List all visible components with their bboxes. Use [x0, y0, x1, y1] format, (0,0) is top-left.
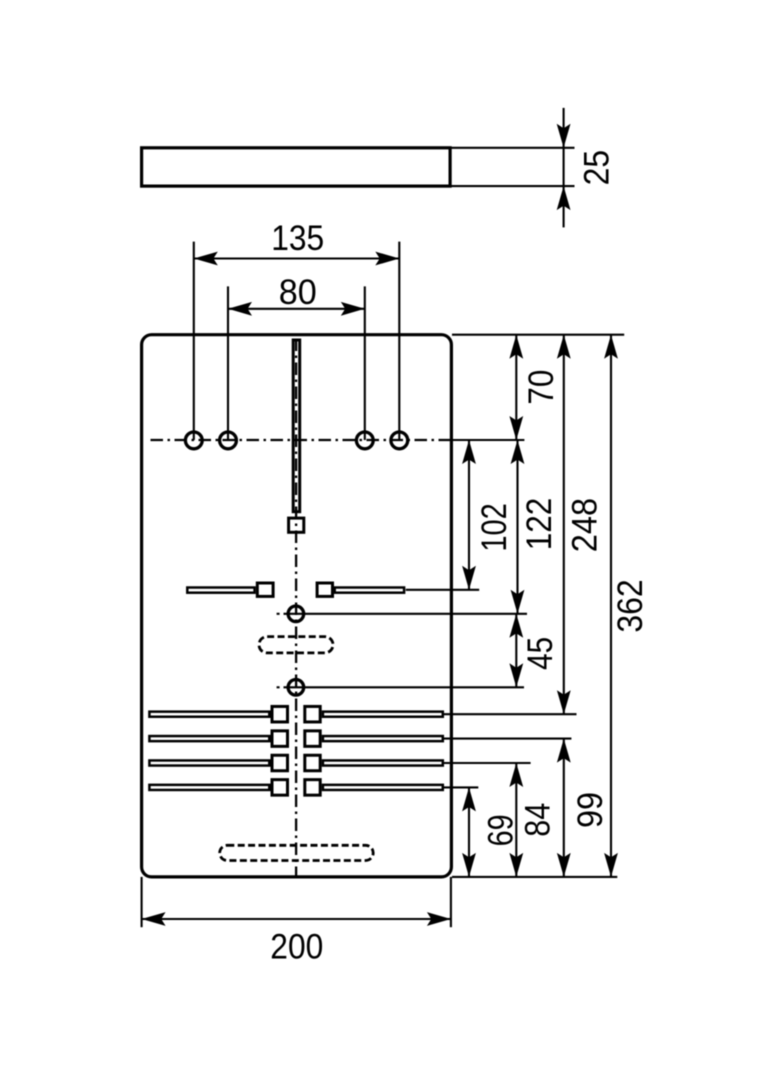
dim 25 line lower	[563, 186, 565, 227]
terminal row: right bar	[335, 588, 404, 593]
bar row 1 right square	[305, 706, 320, 722]
dim 80 ext line right	[364, 286, 366, 440]
hole 4	[391, 432, 408, 449]
bar row 2 left bar	[149, 736, 269, 741]
terminal row: left bar	[187, 588, 254, 593]
dim 248 arrow top	[557, 335, 571, 359]
svg-text:70: 70	[522, 370, 561, 405]
dim 135 line	[194, 257, 399, 259]
dim 84 arrow bottom	[509, 853, 523, 877]
dim 84 arrow top	[509, 763, 523, 787]
bar row 4 right square	[305, 780, 320, 796]
dim 69 line	[468, 787, 470, 877]
circle 1 left centerline dot	[277, 613, 280, 615]
svg-text:248: 248	[566, 498, 605, 552]
dim 248 arrow bottom	[557, 690, 571, 714]
bar row 2 right bar	[323, 736, 443, 741]
circle knockout 1	[288, 606, 304, 622]
terminal row: right square	[317, 583, 332, 596]
dim 80 arrow left	[228, 302, 252, 316]
hole 1	[185, 432, 202, 449]
dim 362 arrow top	[604, 335, 618, 359]
dim 248 line	[563, 335, 565, 715]
bar row 3 right square	[305, 755, 320, 771]
bar row 2 right square	[305, 731, 320, 747]
side view plate	[142, 148, 451, 186]
bar row 2 left square	[272, 731, 288, 747]
dim 80 arrow right	[341, 302, 365, 316]
dim 25 arrow top	[557, 124, 571, 148]
dim 80 line	[228, 308, 365, 310]
dim 200 arrow right	[427, 912, 451, 926]
svg-text:69: 69	[482, 814, 521, 846]
dim 122 arrow top	[511, 440, 525, 464]
dim 102 line	[468, 440, 470, 590]
dim 70 arrow bottom	[509, 416, 523, 440]
holes centerline extension	[451, 439, 524, 441]
dim 99 arrow bottom	[557, 853, 571, 877]
dim 135 ext line left	[193, 242, 195, 440]
bar row 3 right bar	[323, 760, 443, 765]
bar row 3 left square	[272, 755, 288, 771]
dim 45 arrow top	[509, 614, 523, 638]
dim 102 arrow top	[462, 440, 476, 464]
bar row 4 left square	[272, 780, 288, 796]
terminal row: left square	[257, 583, 273, 596]
side view top edge extension	[450, 147, 574, 149]
dim 25 line upper	[563, 108, 565, 148]
dim 69 arrow bottom	[462, 853, 476, 877]
svg-text:25: 25	[578, 150, 617, 186]
circle 2 left centerline dot	[277, 686, 280, 688]
circle 2 extension line	[284, 686, 525, 688]
svg-text:102: 102	[475, 503, 514, 552]
slot end square	[289, 518, 304, 532]
bar row 3 left bar	[149, 760, 269, 765]
hole 2	[220, 432, 237, 449]
bar row 4 left bar	[149, 785, 269, 790]
dashed obround 1	[259, 637, 333, 653]
bar row 1 left bar	[149, 712, 269, 717]
dim 362 line	[610, 335, 612, 877]
bar row 1 extension line	[444, 713, 577, 715]
dim 102 arrow bottom	[462, 566, 476, 590]
dim 25 arrow bottom	[557, 186, 571, 210]
svg-text:135: 135	[271, 219, 324, 258]
dim 200 arrow left	[142, 912, 166, 926]
panel vertical centerline	[295, 339, 297, 877]
side view bottom edge extension	[450, 185, 574, 187]
dim 84 line	[515, 763, 517, 877]
dim 200 line	[142, 918, 451, 920]
panel top extension line	[452, 334, 624, 336]
bar row 4 right bar	[323, 785, 443, 790]
dim 99 arrow top	[557, 739, 571, 763]
bar row 1 left square	[272, 706, 288, 722]
hole 3	[356, 432, 373, 449]
bar row 4 extension line	[444, 786, 478, 788]
dashed obround bottom	[220, 845, 374, 860]
dim 70 arrow top	[509, 335, 523, 359]
dim 200 ext line left	[141, 877, 143, 927]
central slot	[293, 340, 300, 512]
svg-text:80: 80	[279, 273, 317, 312]
dim 200 ext line right	[450, 877, 452, 927]
dim 135 arrow right	[375, 252, 399, 266]
panel outline	[142, 335, 452, 877]
bar row 3 extension line	[444, 762, 531, 764]
dim 69 arrow top	[462, 787, 476, 811]
dim 80 ext line left	[227, 286, 229, 440]
circle knockout 2	[288, 680, 304, 696]
bar row 1 right bar	[323, 712, 443, 717]
dim 25 line middle	[563, 148, 565, 186]
svg-text:99: 99	[571, 792, 610, 828]
terminal row extension line	[406, 589, 479, 591]
svg-text:200: 200	[270, 927, 323, 966]
panel bottom extension line	[452, 876, 617, 878]
bar row 2 extension line	[444, 738, 571, 740]
dim 135 arrow left	[194, 252, 218, 266]
holes centerline dash-dot	[151, 439, 452, 441]
dim 99 line	[563, 739, 565, 877]
dim 122 arrow bottom	[511, 590, 525, 614]
svg-text:84: 84	[519, 803, 558, 837]
dim 362 arrow bottom	[604, 853, 618, 877]
dim 45 arrow bottom	[509, 663, 523, 687]
dim 70 line	[515, 335, 517, 440]
svg-text:122: 122	[520, 498, 559, 551]
dim 122 line	[516, 440, 518, 614]
svg-text:362: 362	[611, 579, 650, 632]
dim 135 ext line right	[398, 242, 400, 440]
dim 45 line	[515, 614, 517, 688]
circle 1 extension line	[284, 613, 528, 615]
svg-text:45: 45	[521, 637, 560, 670]
